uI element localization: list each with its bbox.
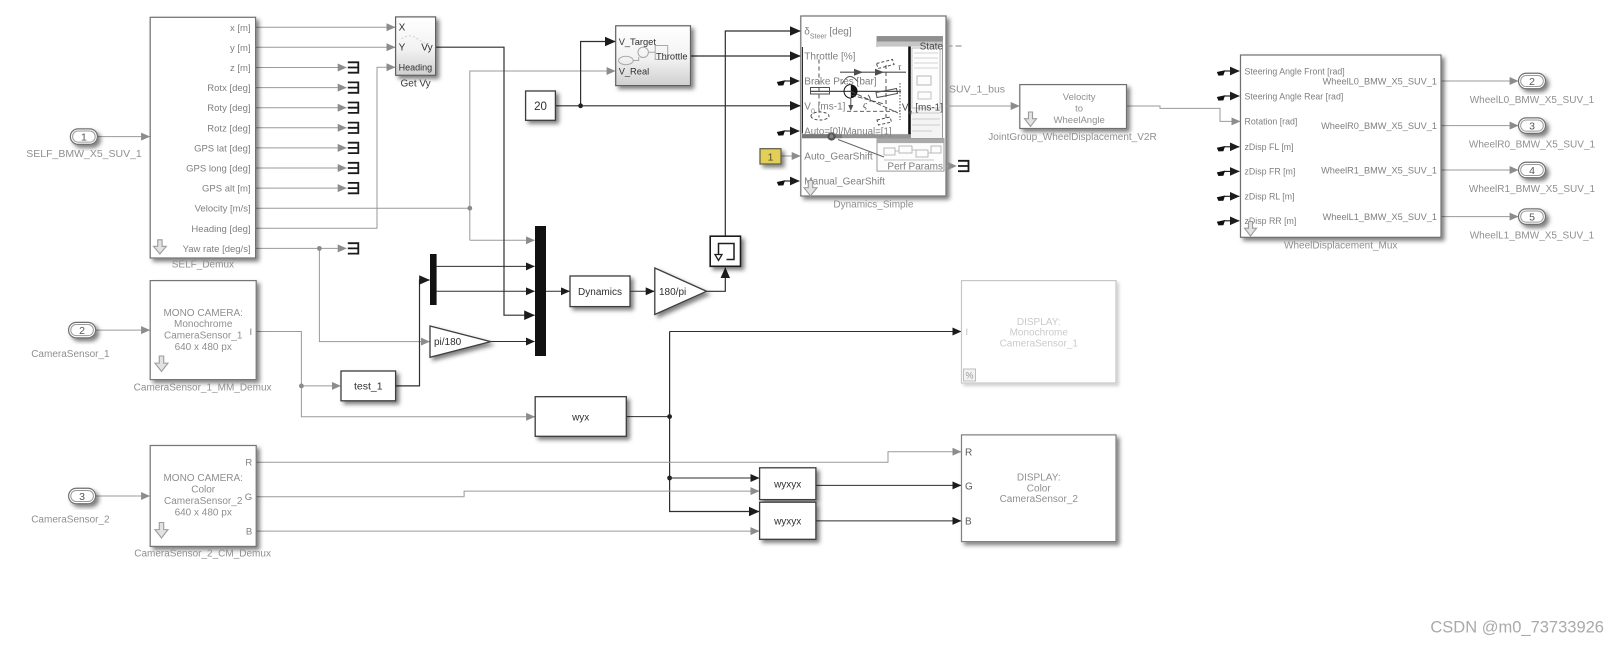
svg-text:CSDN @m0_73733926: CSDN @m0_73733926 bbox=[1430, 619, 1604, 637]
svg-text:Color: Color bbox=[1027, 483, 1052, 494]
svg-text:WheelR0_BMW_X5_SUV_1: WheelR0_BMW_X5_SUV_1 bbox=[1321, 121, 1437, 131]
svg-text:Dynamics: Dynamics bbox=[578, 287, 622, 298]
svg-text:Monochrome: Monochrome bbox=[1010, 328, 1069, 339]
svg-text:zDisp FR [m]: zDisp FR [m] bbox=[1245, 167, 1296, 177]
svg-text:WheelL1_BMW_X5_SUV_1: WheelL1_BMW_X5_SUV_1 bbox=[1323, 212, 1437, 222]
svg-text:5: 5 bbox=[1529, 211, 1535, 223]
svg-text:CameraSensor_1: CameraSensor_1 bbox=[1000, 338, 1079, 349]
svg-text:Dynamics_Simple: Dynamics_Simple bbox=[833, 200, 913, 211]
svg-text:Heading: Heading bbox=[399, 62, 433, 72]
svg-text:SELF_Demux: SELF_Demux bbox=[172, 260, 234, 271]
svg-text:Auto=[0]/Manual=[1]: Auto=[0]/Manual=[1] bbox=[804, 127, 891, 138]
svg-text:2: 2 bbox=[79, 325, 85, 337]
svg-text:WheelR0_BMW_X5_SUV_1: WheelR0_BMW_X5_SUV_1 bbox=[1469, 140, 1596, 151]
svg-text:Rotz [deg]: Rotz [deg] bbox=[207, 123, 250, 134]
svg-text:B: B bbox=[246, 527, 252, 538]
svg-text:Get Vy: Get Vy bbox=[400, 79, 430, 90]
svg-text:WheelL0_BMW_X5_SUV_1: WheelL0_BMW_X5_SUV_1 bbox=[1323, 77, 1437, 87]
svg-text:GPS lat [deg]: GPS lat [deg] bbox=[194, 143, 251, 154]
svg-text:G: G bbox=[965, 482, 973, 493]
svg-text:wyxyx: wyxyx bbox=[773, 479, 801, 490]
svg-text:CameraSensor_2: CameraSensor_2 bbox=[164, 496, 243, 507]
svg-text:MONO CAMERA:: MONO CAMERA: bbox=[163, 308, 242, 319]
svg-text:1: 1 bbox=[768, 151, 774, 163]
svg-text:Steering Angle Rear [rad]: Steering Angle Rear [rad] bbox=[1245, 91, 1344, 101]
svg-text:R: R bbox=[965, 447, 972, 458]
svg-text:Roty [deg]: Roty [deg] bbox=[207, 103, 250, 114]
svg-text:Heading [deg]: Heading [deg] bbox=[191, 224, 250, 235]
svg-text:%: % bbox=[965, 371, 973, 381]
svg-text:zDisp RL [m]: zDisp RL [m] bbox=[1245, 192, 1295, 202]
svg-text:Brake Pres [bar]: Brake Pres [bar] bbox=[804, 77, 876, 88]
svg-text:wyx: wyx bbox=[571, 412, 589, 423]
svg-text:DISPLAY:: DISPLAY: bbox=[1017, 473, 1061, 484]
svg-text:Rotation [rad]: Rotation [rad] bbox=[1245, 117, 1298, 127]
svg-text:WheelL1_BMW_X5_SUV_1: WheelL1_BMW_X5_SUV_1 bbox=[1470, 231, 1595, 242]
svg-text:Velocity [m/s]: Velocity [m/s] bbox=[195, 204, 251, 215]
svg-text:4: 4 bbox=[1529, 165, 1535, 177]
svg-text:2: 2 bbox=[1529, 76, 1535, 88]
svg-text:DISPLAY:: DISPLAY: bbox=[1017, 317, 1061, 328]
svg-text:CameraSensor_1: CameraSensor_1 bbox=[164, 331, 243, 342]
svg-text:Color: Color bbox=[191, 484, 216, 495]
svg-text:Manual_GearShift: Manual_GearShift bbox=[804, 177, 885, 188]
svg-text:pi/180: pi/180 bbox=[434, 337, 462, 348]
svg-text:640 x 480 px: 640 x 480 px bbox=[175, 507, 232, 518]
svg-text:MONO CAMERA:: MONO CAMERA: bbox=[163, 473, 242, 484]
svg-text:20: 20 bbox=[534, 101, 547, 113]
svg-text:JointGroup_WheelDisplacement_V: JointGroup_WheelDisplacement_V2R bbox=[988, 132, 1156, 143]
svg-text:Perf Params: Perf Params bbox=[887, 162, 943, 173]
svg-text:B: B bbox=[965, 517, 972, 528]
svg-text:wyxyx: wyxyx bbox=[773, 517, 801, 528]
svg-text:Yaw rate [deg/s]: Yaw rate [deg/s] bbox=[183, 244, 251, 255]
svg-text:Throttle [%]: Throttle [%] bbox=[804, 52, 855, 63]
svg-text:Y: Y bbox=[399, 43, 406, 54]
svg-text:WheelR1_BMW_X5_SUV_1: WheelR1_BMW_X5_SUV_1 bbox=[1321, 166, 1437, 176]
svg-text:Vy: Vy bbox=[421, 43, 432, 54]
svg-text:Rotx [deg]: Rotx [deg] bbox=[207, 83, 250, 94]
svg-text:z [m]: z [m] bbox=[230, 63, 251, 74]
svg-text:CameraSensor_2: CameraSensor_2 bbox=[31, 515, 110, 526]
svg-text:SELF_BMW_X5_SUV_1: SELF_BMW_X5_SUV_1 bbox=[26, 148, 142, 160]
svg-text:WheelDisplacement_Mux: WheelDisplacement_Mux bbox=[1284, 241, 1397, 252]
svg-text:X: X bbox=[399, 23, 406, 34]
svg-text:640 x 480 px: 640 x 480 px bbox=[175, 342, 232, 353]
svg-text:WheelAngle: WheelAngle bbox=[1054, 115, 1105, 126]
svg-text:y [m]: y [m] bbox=[230, 43, 251, 54]
svg-text:3: 3 bbox=[79, 491, 85, 503]
svg-text:CameraSensor_1_MM_Demux: CameraSensor_1_MM_Demux bbox=[134, 383, 272, 394]
svg-text:to: to bbox=[1075, 104, 1083, 115]
svg-text:180/pi: 180/pi bbox=[659, 287, 686, 298]
svg-text:V_Target: V_Target bbox=[619, 37, 657, 47]
svg-text:WheelL0_BMW_X5_SUV_1: WheelL0_BMW_X5_SUV_1 bbox=[1470, 95, 1595, 106]
svg-text:I: I bbox=[966, 327, 969, 338]
svg-text:SUV_1_bus: SUV_1_bus bbox=[949, 83, 1005, 95]
svg-text:Throttle: Throttle bbox=[656, 52, 688, 62]
svg-text:R: R bbox=[245, 458, 252, 469]
svg-text:CameraSensor_2: CameraSensor_2 bbox=[1000, 494, 1079, 505]
svg-text:x [m]: x [m] bbox=[230, 23, 251, 34]
svg-text:I: I bbox=[250, 327, 253, 338]
svg-text:Velocity: Velocity bbox=[1063, 92, 1096, 103]
svg-text:WheelR1_BMW_X5_SUV_1: WheelR1_BMW_X5_SUV_1 bbox=[1469, 184, 1596, 195]
svg-text:V_Real: V_Real bbox=[619, 67, 650, 77]
svg-text:3: 3 bbox=[1529, 120, 1535, 132]
svg-text:Auto_GearShift: Auto_GearShift bbox=[804, 152, 873, 163]
svg-text:zDisp FL [m]: zDisp FL [m] bbox=[1245, 142, 1294, 152]
svg-text:CameraSensor_2_CM_Demux: CameraSensor_2_CM_Demux bbox=[134, 549, 271, 560]
svg-text:GPS long [deg]: GPS long [deg] bbox=[186, 164, 250, 175]
svg-text:Monochrome: Monochrome bbox=[174, 319, 233, 330]
svg-text:Steering Angle Front [rad]: Steering Angle Front [rad] bbox=[1245, 66, 1345, 76]
svg-text:CameraSensor_1: CameraSensor_1 bbox=[31, 349, 110, 360]
svg-text:test_1: test_1 bbox=[354, 381, 383, 393]
svg-text:G: G bbox=[245, 492, 252, 503]
svg-text:State: State bbox=[920, 42, 944, 53]
svg-text:1: 1 bbox=[81, 131, 87, 143]
svg-text:GPS alt [m]: GPS alt [m] bbox=[202, 184, 251, 195]
